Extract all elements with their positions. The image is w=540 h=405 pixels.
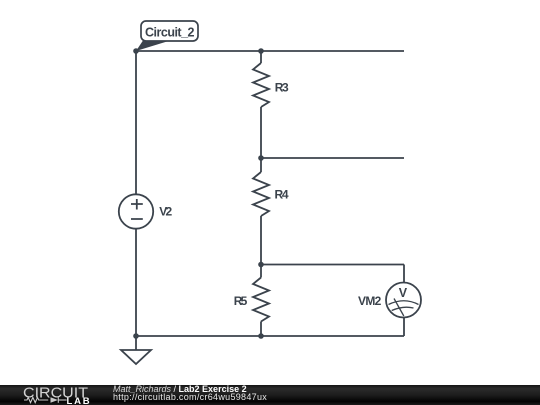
svg-text:R5: R5	[234, 294, 248, 308]
svg-text:VM2: VM2	[358, 294, 382, 308]
svg-text:R4: R4	[275, 187, 289, 201]
svg-text:R3: R3	[275, 81, 289, 95]
svg-text:LAB: LAB	[67, 396, 92, 405]
svg-text:V2: V2	[159, 205, 172, 219]
svg-text:V: V	[399, 286, 408, 300]
svg-text:Circuit_2: Circuit_2	[145, 26, 195, 40]
